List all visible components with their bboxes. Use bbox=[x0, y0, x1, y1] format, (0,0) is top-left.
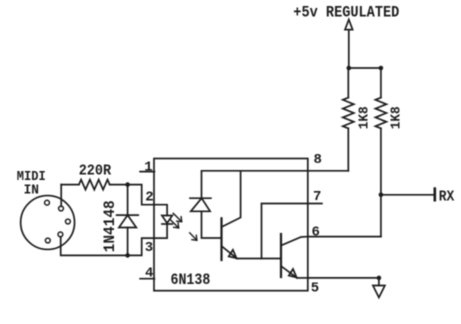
svg-text:5: 5 bbox=[311, 280, 319, 296]
svg-text:6N138: 6N138 bbox=[171, 271, 211, 289]
svg-text:2: 2 bbox=[145, 190, 153, 206]
svg-text:IN: IN bbox=[24, 182, 39, 198]
svg-text:+5v REGULATED: +5v REGULATED bbox=[293, 3, 399, 21]
svg-text:220R: 220R bbox=[79, 164, 112, 180]
svg-text:4: 4 bbox=[145, 265, 153, 281]
svg-text:1K8: 1K8 bbox=[356, 106, 372, 129]
svg-text:3: 3 bbox=[145, 240, 153, 256]
svg-text:1N4148: 1N4148 bbox=[101, 200, 119, 252]
svg-text:1K8: 1K8 bbox=[389, 106, 405, 129]
svg-text:6: 6 bbox=[312, 225, 320, 241]
svg-text:1: 1 bbox=[144, 159, 152, 175]
svg-text:8: 8 bbox=[314, 152, 322, 168]
svg-text:7: 7 bbox=[313, 189, 321, 205]
svg-text:RX: RX bbox=[439, 189, 455, 205]
